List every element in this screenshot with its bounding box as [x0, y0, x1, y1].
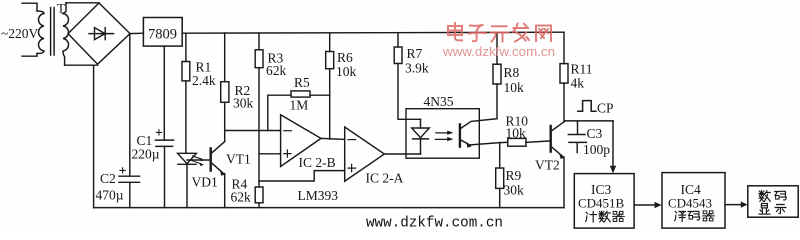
svg-text:VT2: VT2 [535, 158, 560, 173]
svg-text:www.dzkfw.com.cn: www.dzkfw.com.cn [366, 216, 503, 232]
svg-text:62k: 62k [231, 190, 252, 205]
label LM393 [298, 188, 339, 203]
transformer T primary winding [37, 11, 44, 54]
svg-text:1M: 1M [290, 98, 309, 113]
optocoupler 4N35 box [406, 109, 479, 159]
AC source label ~220V [1, 26, 39, 41]
resistor R1 [185, 33, 187, 61]
svg-text:IC 2-B: IC 2-B [299, 155, 336, 170]
resistor R4 [255, 187, 263, 203]
wire top supply rail [182, 32, 564, 33]
watermark bottom url [366, 216, 503, 232]
svg-text:IC4: IC4 [681, 182, 702, 197]
wire noninverting input IC2-A stepped [259, 171, 345, 181]
watermark 电子开发网 red [448, 23, 551, 42]
wire noninverting input IC2-B [259, 153, 281, 155]
resistor R7 [397, 33, 399, 47]
svg-text:10k: 10k [504, 80, 525, 95]
svg-text:~220V: ~220V [1, 26, 39, 41]
arrow IC4 to display [725, 204, 741, 206]
IC4 label 译码器 [675, 211, 715, 222]
resistor R8 [496, 84, 498, 119]
transformer T secondary winding [63, 3, 69, 65]
IC4 decoder box [662, 173, 725, 229]
capacitor C2 [119, 176, 140, 182]
display box 数码显示 [748, 186, 798, 217]
wire IC2-A output to optocoupler LED cathode [384, 153, 420, 155]
svg-text:100p: 100p [583, 142, 610, 157]
LED VD1 [178, 153, 197, 163]
wire bottom ground rail [94, 207, 564, 209]
IC3 counter box [574, 174, 634, 229]
arrow IC3 to IC4 [634, 204, 654, 206]
wire inverting input node [225, 130, 281, 132]
svg-text:62k: 62k [266, 63, 287, 78]
svg-text:470µ: 470µ [96, 188, 124, 203]
regulator 7809 [143, 18, 182, 47]
watermark red url [442, 45, 555, 59]
optocoupler phototransistor [459, 124, 461, 146]
svg-text:7809: 7809 [148, 27, 177, 43]
clock pulse symbol CP [578, 101, 596, 112]
svg-text:30k: 30k [233, 96, 254, 111]
svg-text:IC3: IC3 [591, 182, 612, 197]
svg-text:R11: R11 [571, 62, 593, 77]
bridge rectifier diamond [68, 3, 130, 64]
wire primary bottom stub [22, 54, 37, 57]
capacitor C1 [155, 140, 173, 146]
resistor R3 [258, 33, 260, 50]
svg-text:C2: C2 [100, 171, 116, 186]
svg-text:220µ: 220µ [132, 147, 160, 162]
transistor VT2 [550, 126, 552, 152]
svg-text:R5: R5 [294, 75, 310, 90]
svg-text:CP: CP [597, 101, 614, 116]
op-amp IC 2-A [345, 127, 385, 181]
wire bridge negative down [93, 65, 95, 207]
resistor R6 [329, 33, 331, 51]
svg-text:R6: R6 [337, 50, 353, 65]
svg-text:R8: R8 [504, 65, 520, 80]
resistor R11 [563, 32, 565, 63]
resistor R2 [224, 33, 226, 82]
bridge diode symbol [89, 33, 114, 35]
transformer T core [51, 8, 55, 56]
wire secondary bottom to bridge bottom corner [65, 64, 98, 66]
optocoupler light arrows [435, 133, 448, 140]
svg-text:CD4543: CD4543 [668, 196, 712, 211]
transistor VT1 [209, 148, 211, 170]
svg-text:www.dzkfw.com.cn: www.dzkfw.com.cn [442, 45, 555, 59]
resistor R5 feedback [268, 95, 291, 130]
wire CP to IC3 with arrow [612, 121, 614, 166]
wire IC2-B output to IC2-A inverting input [321, 138, 345, 139]
svg-text:2.4k: 2.4k [192, 73, 216, 88]
svg-text:R9: R9 [506, 168, 522, 183]
svg-text:10k: 10k [506, 126, 527, 141]
svg-text:30k: 30k [504, 183, 525, 198]
resistor R9 [499, 143, 501, 168]
node CP wire [564, 120, 613, 122]
wire secondary top to bridge [66, 2, 99, 4]
wire unregulated rail down to C2 [129, 34, 131, 208]
IC3 label 计数器 [586, 211, 625, 222]
wire 7809 ground pin down to C1 [163, 46, 165, 208]
svg-text:4N35: 4N35 [424, 94, 454, 109]
wire bridge output to regulator [130, 32, 143, 34]
optocoupler LED [420, 119, 422, 128]
resistor R10 [508, 138, 526, 146]
wire VD1 to VT1 base [187, 159, 211, 161]
svg-text:C3: C3 [587, 126, 603, 141]
svg-text:CD451B: CD451B [578, 196, 625, 211]
svg-text:4k: 4k [571, 76, 585, 91]
capacitor C3 [577, 121, 579, 134]
wire primary top stub [22, 3, 37, 11]
svg-text:R7: R7 [407, 46, 423, 61]
svg-text:LM393: LM393 [298, 188, 339, 203]
transformer T label [57, 1, 65, 16]
svg-text:IC 2-A: IC 2-A [366, 171, 404, 186]
op-amp IC 2-B [281, 115, 321, 167]
svg-text:VD1: VD1 [192, 175, 218, 190]
svg-text:VT1: VT1 [226, 152, 251, 167]
svg-text:3.9k: 3.9k [405, 60, 429, 75]
svg-text:10k: 10k [336, 64, 357, 79]
